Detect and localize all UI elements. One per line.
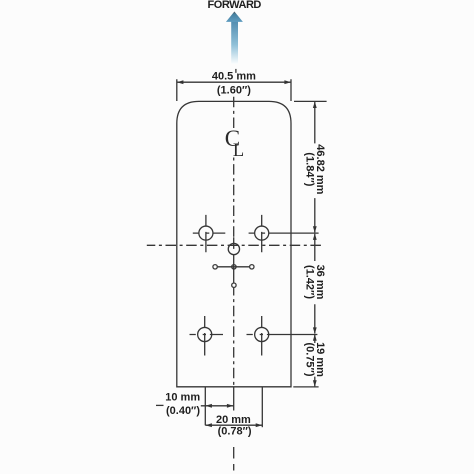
dim 46.82mm line	[314, 102, 316, 232]
forward arrow shaft	[231, 21, 238, 64]
svg-text:10 mm: 10 mm	[165, 392, 200, 404]
dim 10mm line	[201, 405, 234, 407]
centerline bottom dashes	[233, 447, 235, 471]
small cross horizontal bar	[217, 266, 249, 268]
stray tick	[235, 69, 237, 73]
svg-text:FORWARD: FORWARD	[207, 0, 261, 11]
svg-text:(1.60″): (1.60″)	[217, 84, 251, 96]
svg-text:40.5 mm: 40.5 mm	[212, 70, 256, 82]
svg-text:(0.40″): (0.40″)	[166, 405, 200, 417]
top dimension 40.5mm: dim line	[177, 81, 291, 83]
hole lower-right	[255, 327, 269, 341]
vertical centerline through hole	[233, 237, 235, 283]
vertical centerline lower	[233, 288, 235, 387]
center extension below plate	[233, 387, 235, 411]
svg-text:(1.42″): (1.42″)	[303, 265, 315, 299]
svg-text:(1.84″): (1.84″)	[303, 152, 315, 186]
hole upper-left	[199, 226, 213, 240]
horizontal centerline	[147, 244, 321, 246]
hole upper-right	[255, 226, 269, 240]
top dim right arrow	[284, 80, 291, 84]
plate outline	[177, 101, 291, 386]
svg-text:(0.78″): (0.78″)	[218, 426, 252, 438]
right extension line top edge	[294, 100, 327, 102]
forward arrow head	[226, 12, 243, 22]
svg-text:L: L	[233, 141, 244, 161]
top dim left arrow	[177, 80, 184, 84]
svg-text:20 mm: 20 mm	[216, 414, 251, 426]
dim 20mm line	[205, 424, 262, 426]
dim 36mm line	[314, 234, 316, 334]
center hole O5	[228, 243, 239, 254]
vertical centerline top	[233, 97, 235, 130]
small circle right	[250, 265, 254, 269]
top dim extension lines	[177, 79, 291, 101]
10mm leader dash	[156, 404, 164, 406]
svg-text:(0.75″): (0.75″)	[303, 342, 315, 376]
hole lower-left	[198, 327, 212, 341]
dim 19mm line	[314, 335, 316, 387]
small cross center node	[232, 265, 236, 269]
small circle bottom	[232, 283, 236, 287]
extension line right hole column below plate	[261, 388, 263, 428]
right extension line bottom edge	[293, 386, 318, 388]
small circle left	[213, 265, 217, 269]
vertical centerline mid	[233, 158, 235, 238]
extension line left hole column below plate	[204, 388, 206, 426]
